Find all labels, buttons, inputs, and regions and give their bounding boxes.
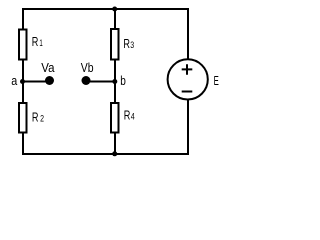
wire node a to Va probe [22, 81, 47, 83]
svg-text:E: E [214, 74, 219, 88]
resistor R1 [19, 30, 43, 60]
svg-text:3: 3 [130, 40, 134, 50]
wire left branch middle [22, 60, 24, 103]
svg-text:Va: Va [41, 61, 54, 75]
resistor R2 [19, 103, 44, 133]
svg-text:R: R [32, 110, 39, 124]
probe Va [41, 61, 54, 85]
svg-text:4: 4 [131, 112, 135, 122]
node b [112, 74, 126, 88]
wire middle branch lower [114, 133, 116, 155]
svg-text:2: 2 [40, 113, 44, 123]
wire left branch upper [22, 8, 24, 30]
svg-text:R: R [124, 109, 131, 123]
node a [11, 74, 25, 88]
svg-text:Vb: Vb [81, 61, 94, 75]
voltage source E [168, 59, 219, 99]
junction bottom node [112, 151, 117, 156]
svg-text:b: b [120, 74, 126, 88]
svg-text:1: 1 [39, 38, 42, 48]
wire bottom rail [22, 153, 189, 155]
resistor R4 [111, 103, 135, 133]
probe Vb [81, 61, 94, 85]
wire middle branch upper [114, 8, 116, 30]
junction top node [112, 7, 117, 12]
wire top rail [22, 8, 189, 10]
wire Vb probe to node b [88, 81, 115, 83]
wire middle branch middle [114, 60, 116, 103]
wire left branch lower [22, 133, 24, 155]
svg-text:R: R [123, 37, 130, 51]
svg-text:a: a [11, 74, 17, 88]
wire right branch upper [187, 8, 189, 60]
svg-text:R: R [32, 35, 39, 49]
wire right branch lower [187, 99, 189, 155]
resistor R3 [111, 29, 134, 60]
